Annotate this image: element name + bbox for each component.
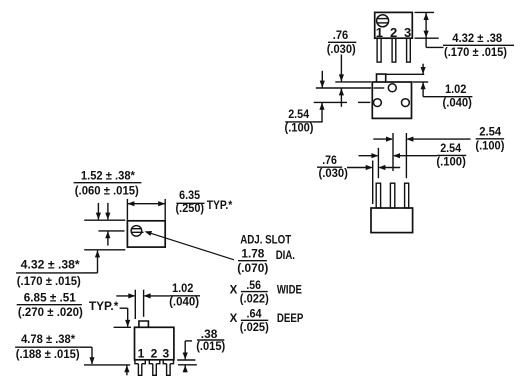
svg-text:(.040): (.040)	[442, 98, 472, 110]
extension line body top (middle view)	[84, 219, 125, 221]
trimmer body (front view, top right)	[375, 12, 413, 38]
dimension 2.54 / (.100) left of bottom view	[285, 71, 325, 135]
pin 3 lead (side view)	[405, 183, 409, 208]
svg-text:(.170 ± .015): (.170 ± .015)	[444, 47, 507, 59]
extension line pins 1-3 centerline (bottom view)	[314, 101, 347, 103]
label 4.78 +/- .38* / (.188 +/- .015)	[15, 334, 95, 364]
extension line body bottom (middle view)	[84, 249, 125, 251]
svg-text:TYP.*: TYP.*	[207, 200, 233, 212]
note X .56 / (.022) WIDE	[230, 280, 303, 306]
trimmer body (lower-left front view)	[135, 327, 174, 360]
svg-text:1.02: 1.02	[445, 84, 467, 96]
svg-text:(.188 ± .015): (.188 ± .015)	[16, 349, 80, 361]
svg-text:ADJ. SLOT: ADJ. SLOT	[240, 234, 291, 246]
extension line body top left (lower-left view)	[114, 326, 131, 328]
trimmer body (middle-left side view)	[127, 221, 165, 247]
pin 2 lead (top right view)	[392, 38, 396, 62]
svg-text:(.030): (.030)	[327, 44, 356, 56]
pin 3 lead (top right view)	[407, 38, 411, 62]
dimension arrows 1.52 and 4.32 (middle view left)	[96, 203, 111, 246]
svg-text:(.170 ± .015): (.170 ± .015)	[17, 276, 81, 288]
svg-text:(.100): (.100)	[475, 141, 504, 153]
svg-text:(.060 ± .015): (.060 ± .015)	[75, 186, 139, 198]
svg-text:3: 3	[162, 347, 169, 361]
svg-text:2.54: 2.54	[288, 109, 310, 121]
svg-text:(.030): (.030)	[318, 168, 348, 180]
extension line V1 pin1 left (side view)	[372, 161, 374, 205]
label 6.85 +/- .51 / (.270 +/- .020) TYP.*	[17, 292, 119, 319]
svg-text:(.250): (.250)	[176, 203, 205, 215]
screw housing notch (lower-left view)	[139, 321, 149, 327]
trimmer body (bottom view)	[372, 82, 411, 118]
label 4.32 +/- .38* / (.170 +/- .015) left	[16, 250, 100, 287]
dimension 1.02 / (.040) screw offset (lower-left view)	[116, 283, 200, 319]
extension line body top right (bottom view)	[413, 81, 429, 83]
label 2.54 / (.100) second	[436, 143, 466, 168]
svg-text:.76: .76	[333, 30, 349, 42]
pin 2 shoulder and lead (lower-left view)	[149, 360, 160, 376]
svg-text:2: 2	[151, 347, 158, 361]
svg-text:2.54: 2.54	[479, 126, 502, 138]
extension line notch top right (bottom view)	[386, 73, 425, 75]
extension line pin2 centerline (bottom view)	[316, 87, 385, 89]
note X .64 / (.025) DEEP	[230, 308, 304, 334]
dimension 6.85 leader and arrows	[120, 308, 131, 375]
svg-text:.38: .38	[201, 329, 218, 341]
dimension 1.02 / (.040) right of bottom view	[421, 64, 473, 110]
svg-text:(.070): (.070)	[237, 263, 268, 275]
svg-text:4.78 ± .38*: 4.78 ± .38*	[21, 334, 76, 346]
extension line V4 pin3 center (side view)	[405, 133, 407, 178]
svg-text:4.32 ± .38: 4.32 ± .38	[452, 33, 503, 45]
svg-text:6.35: 6.35	[179, 190, 200, 202]
svg-text:WIDE: WIDE	[277, 285, 302, 297]
dimension 4.32 +/- .38 body height (top right)	[415, 12, 444, 47]
svg-text:6.85 ± .51: 6.85 ± .51	[24, 292, 77, 304]
svg-text:.64: .64	[246, 308, 262, 320]
screw housing notch (bottom view)	[377, 74, 386, 82]
label 4.32 +/- .38 / (.170 +/- .015) top right	[443, 33, 514, 59]
svg-text:1.52 ± .38*: 1.52 ± .38*	[81, 171, 136, 183]
svg-text:(.040): (.040)	[169, 297, 199, 309]
svg-text:2.54: 2.54	[440, 143, 462, 155]
pin 1 shoulder and lead (lower-left view)	[135, 360, 145, 376]
svg-text:X: X	[230, 313, 238, 325]
svg-text:1.02: 1.02	[172, 283, 194, 295]
extension line body top edge left (bottom view)	[335, 81, 371, 83]
svg-text:(.100): (.100)	[285, 123, 314, 135]
dimension 6.35 / (.250) TYP. width (middle view)	[127, 199, 165, 220]
svg-text:.76: .76	[322, 155, 337, 167]
pin 2 hole (bottom view)	[388, 84, 396, 92]
label 6.35 / (.250) TYP.*	[176, 190, 233, 215]
svg-text:.56: .56	[246, 280, 261, 292]
extension line V3 pin2 center (side view)	[392, 133, 394, 171]
label 1.52 +/- .38* / (.060 +/- .015)	[74, 171, 142, 198]
pin 2 lead (side view)	[390, 183, 394, 208]
svg-text:(.025): (.025)	[240, 322, 269, 334]
svg-text:(.100): (.100)	[436, 156, 466, 168]
svg-text:(.015): (.015)	[196, 341, 225, 353]
extension line slot centerline (middle view)	[98, 230, 124, 232]
dimension line 2.54 pins 1-2 (row 2)	[359, 153, 437, 158]
svg-text:DEEP: DEEP	[277, 313, 304, 325]
label .76 / (.030) second	[317, 155, 348, 180]
svg-text:(.270 ± .020): (.270 ± .020)	[18, 307, 83, 319]
extension line seating plane left (lower-left view)	[84, 364, 130, 366]
leader line to ADJ. SLOT note	[145, 231, 235, 260]
svg-text:X: X	[230, 284, 238, 296]
pin 1 hole (bottom view)	[374, 99, 382, 107]
extension line V2 pin1 center (side view)	[377, 148, 379, 178]
trimmer body (side view, pins up)	[371, 208, 413, 233]
dimension .38 / (.015) standoff (lower-left view)	[177, 329, 225, 372]
svg-text:1: 1	[138, 347, 145, 361]
dimension line 2.54 pins 2-3 (row 1)	[373, 137, 470, 142]
pin 1 lead (side view)	[376, 183, 380, 208]
svg-text:TYP.*: TYP.*	[89, 301, 119, 313]
svg-text:(.022): (.022)	[240, 294, 269, 306]
dimension .76 / (.030) top	[327, 30, 357, 107]
pin 3 shoulder and lead (lower-left view)	[163, 360, 173, 376]
svg-text:1.78: 1.78	[241, 248, 265, 260]
dimension line .76 pin width (row 3)	[347, 165, 400, 170]
pin 1 lead (top right view)	[377, 38, 381, 62]
adjustment screw (middle-left view)	[131, 226, 144, 237]
label 2.54 / (.100) upper right	[475, 126, 504, 152]
svg-text:DIA.: DIA.	[276, 250, 295, 262]
note 1.78 / (.070) DIA.	[237, 248, 295, 275]
pin 3 hole (bottom view)	[402, 99, 410, 107]
svg-text:4.32 ± .38*: 4.32 ± .38*	[21, 259, 81, 271]
adjustment screw head (front view, top right)	[377, 15, 389, 27]
